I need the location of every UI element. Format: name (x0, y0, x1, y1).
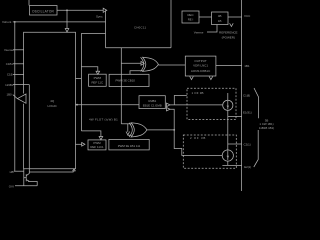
svg-text:2 OF 3B: 2 OF 3B (190, 136, 206, 140)
node J1 (66, 9, 68, 11)
node arrow U3 out b (209, 76, 213, 79)
node J3 (76, 104, 78, 106)
wire CT input top (28, 0, 30, 6)
wire FF input (76, 104, 140, 106)
wire Q2 emitter down (227, 161, 229, 165)
wire VCC rail (241, 0, 243, 191)
wire comparator rail (120, 48, 122, 124)
wire callout upper (254, 88, 259, 118)
node FF out arrow Q (167, 103, 170, 107)
wire top distribution (106, 47, 172, 49)
logic block U4 (24, 32, 76, 169)
svg-text:UMB1: UMB1 (148, 99, 156, 103)
wire ramp to PWM2 top (81, 131, 101, 137)
wire gate1 input B (130, 71, 144, 75)
svg-text:OSCILLATOR: OSCILLATOR (32, 9, 55, 13)
svg-text:1 OF 3B: 1 OF 3B (192, 91, 204, 95)
wire pin stub 3 (13, 73, 24, 75)
comparator PWM1a (89, 74, 107, 86)
svg-text:LOGIC: LOGIC (48, 104, 58, 108)
wire pin stub 1 (13, 49, 24, 51)
wire Q1 emitter down (227, 110, 229, 149)
svg-text:EB1E C1 EMB: EB1E C1 EMB (143, 104, 162, 108)
svg-text:E2(1): E2(1) (244, 165, 251, 169)
svg-text:CH0C11: CH0C11 (134, 26, 146, 30)
svg-text:1B0: 1B0 (7, 93, 13, 97)
node FF out arrow Qbar (167, 108, 170, 111)
svg-text:Vsense: Vsense (194, 31, 204, 35)
svg-text:VCC: VCC (244, 14, 251, 18)
svg-text:C1B: C1B (7, 73, 13, 77)
wire ramp rail vertical (80, 33, 82, 130)
svg-text:RE I: RE I (188, 18, 194, 22)
wire bias vertical (23, 169, 25, 186)
wire Vshunt (13, 21, 106, 23)
buffer A1 triangle (17, 94, 26, 103)
or-gate G2 (131, 123, 147, 137)
node clock arrow into logic box (65, 29, 69, 32)
wire inner bus (28, 85, 30, 174)
wire Q3 emitter drop (30, 182, 38, 186)
wire E2 long (222, 164, 241, 166)
svg-text:Vshunt: Vshunt (2, 20, 12, 24)
svg-text:OUTPUT: OUTPUT (194, 59, 207, 63)
node arrow into PWM1a (96, 71, 100, 74)
wire Qbar down (170, 109, 222, 155)
wire mux rail (105, 10, 107, 48)
node arrow refB down (230, 23, 234, 26)
wire Vsense2 to refB (207, 25, 217, 33)
wire gate2 input B branch (127, 124, 129, 132)
wire refB to VCC rail (228, 16, 242, 18)
wire Q1 collector stub (227, 93, 229, 100)
svg-text:4B: 4B (218, 14, 222, 18)
wire Q branch to frame (174, 96, 187, 105)
wire Q3 output (30, 171, 74, 173)
svg-text:4Q: 4Q (50, 99, 55, 103)
node J2 (14, 21, 16, 23)
svg-text:1B1: 1B1 (244, 64, 250, 68)
svg-text:REF 11C: REF 11C (91, 80, 103, 84)
transistor Q2 (222, 150, 233, 161)
node arrow into logic bottom (72, 170, 75, 172)
wire top feed from edge (170, 0, 172, 48)
wire oscillator output (57, 9, 104, 11)
wire ramp feed horizontal (81, 32, 105, 34)
svg-text:Sync: Sync (96, 14, 103, 18)
node arrow gate2 B (126, 132, 130, 135)
wire gate2 output (147, 129, 174, 131)
comparator PWM1b (109, 74, 149, 86)
svg-text:Vsense: Vsense (4, 48, 14, 52)
reference block B (212, 12, 229, 25)
dashed output frame Q1 (187, 88, 236, 119)
wire pin diag to buffer (13, 95, 18, 99)
wire E1 pin (228, 115, 242, 117)
node sync arrow (103, 8, 107, 12)
wire gate1 input A (121, 62, 141, 64)
wire gate2 input A (121, 123, 131, 125)
wire logic to PWM2a (76, 143, 82, 145)
wire stub logic to PWM1a (76, 78, 82, 80)
svg-text:HB: HB (10, 170, 14, 174)
svg-text:C1(8): C1(8) (243, 94, 250, 98)
wire left rail (14, 22, 16, 171)
wire Q to Q1 base (170, 104, 223, 106)
comparator PWM2b (109, 139, 149, 150)
svg-text:E1(91): E1(91) (243, 110, 252, 114)
svg-text:1B: 1B (218, 19, 222, 23)
node J4 (173, 129, 175, 131)
wire C2 pin (228, 143, 242, 145)
reference block A (182, 11, 199, 23)
svg-text:PWM 3E CB10: PWM 3E CB10 (115, 78, 135, 82)
svg-text:AONS DXB1C: AONS DXB1C (191, 69, 211, 73)
flip-flop U5 (139, 96, 165, 109)
svg-text:(POWER): (POWER) (222, 35, 235, 39)
oscillator U1 (30, 6, 58, 16)
dashed output frame Q2 (183, 135, 236, 168)
node arrow into PWM2a (99, 137, 103, 140)
svg-text:PWM 3E 1B1 111: PWM 3E 1B1 111 (118, 144, 141, 148)
wire ramp branch to PWM1a (81, 67, 97, 72)
transistor Q1 (223, 100, 233, 110)
svg-text:C2(1): C2(1) (244, 142, 251, 146)
comparator PWM2a (88, 140, 106, 150)
wire pin stub 2 (13, 63, 24, 65)
svg-text:REFERENCE: REFERENCE (219, 31, 238, 35)
node arrow into gate1 (141, 61, 144, 65)
or-gate G1 (143, 57, 159, 71)
svg-text:OVI: OVI (9, 184, 14, 188)
node arrow PWM2a left (82, 143, 85, 147)
wire callout lower (254, 130, 258, 167)
svg-text:REF 11C1: REF 11C1 (90, 145, 104, 149)
node arrow U3 out a (190, 76, 194, 79)
wire HB stub (14, 170, 24, 172)
wire GND stub (15, 185, 37, 187)
svg-text:11B1B 1B1): 11B1B 1B1) (259, 126, 274, 130)
wire refA to refB (199, 16, 212, 18)
svg-text:REC: REC (187, 13, 193, 17)
transistor Q3 (24, 173, 30, 182)
svg-text:4W FLOT (loW) B1: 4W FLOT (loW) B1 (89, 117, 118, 121)
svg-text:123BL: 123BL (5, 83, 14, 87)
svg-text:VDR LNC1: VDR LNC1 (193, 64, 208, 68)
output control U3 (185, 56, 216, 76)
svg-text:C1B1: C1B1 (6, 62, 14, 66)
wire gate1 output (158, 64, 185, 66)
wire pin stub 4 (13, 84, 29, 86)
wire oscillator branch down (66, 10, 68, 28)
wire U3 to C rail (216, 65, 242, 67)
